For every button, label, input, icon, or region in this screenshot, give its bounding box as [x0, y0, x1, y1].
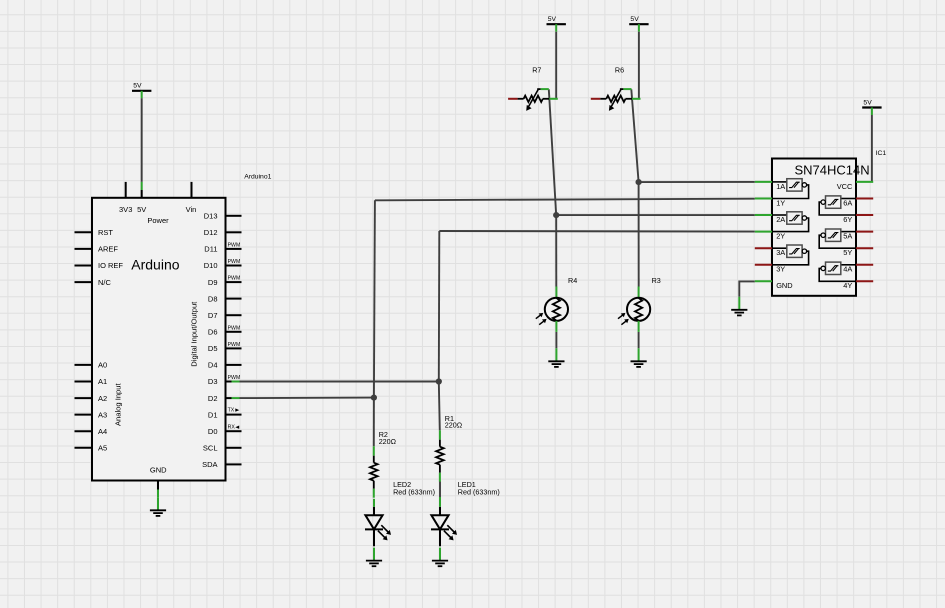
LED2 Red (633nm): [365, 480, 435, 547]
svg-text:5V: 5V: [548, 16, 557, 23]
ground (Arduino GND): [150, 497, 166, 516]
svg-text:SCL: SCL: [203, 444, 218, 453]
svg-text:R7: R7: [532, 65, 541, 74]
wire node B to IC 1A: [639, 181, 755, 183]
svg-text:D4: D4: [208, 361, 218, 370]
svg-text:D9: D9: [208, 278, 218, 287]
svg-text:GND: GND: [150, 466, 167, 475]
wire IC 2Y horizontal: [439, 230, 755, 233]
svg-text:A4: A4: [98, 427, 107, 436]
svg-text:3Y: 3Y: [776, 265, 785, 274]
svg-text:Power: Power: [147, 216, 169, 225]
svg-text:GND: GND: [776, 281, 792, 290]
svg-text:220Ω: 220Ω: [379, 437, 397, 446]
svg-text:Red (633nm): Red (633nm): [458, 487, 500, 496]
svg-text:PWM: PWM: [228, 259, 241, 265]
svg-text:Digital Input/Output: Digital Input/Output: [190, 301, 199, 367]
svg-text:D8: D8: [208, 294, 218, 303]
wire IC GND to ground: [739, 281, 755, 296]
hex inverter IC1 SN74HC14N: [755, 150, 887, 296]
microcontroller Arduino1 (Arduino Uno): [75, 174, 272, 498]
svg-text:5V: 5V: [137, 205, 146, 214]
wire node B to R3: [638, 182, 640, 286]
svg-text:4A: 4A: [843, 265, 852, 274]
ground (R4): [548, 348, 564, 367]
wire node D to R1: [439, 382, 440, 431]
svg-text:D0: D0: [208, 427, 218, 436]
ground (R3): [631, 348, 647, 367]
svg-text:VCC: VCC: [837, 182, 853, 191]
svg-text:R6: R6: [615, 65, 624, 74]
svg-text:PWM: PWM: [228, 342, 241, 348]
resistor R1 220Ω: [436, 414, 463, 482]
svg-text:1A: 1A: [776, 182, 785, 191]
wire R4 to ground: [555, 332, 557, 348]
wire 5V to R6 terminal: [638, 32, 640, 99]
svg-text:Arduino1: Arduino1: [244, 174, 271, 181]
trimmer potentiometer R7: [508, 65, 558, 111]
svg-text:D12: D12: [204, 228, 218, 237]
svg-text:Vin: Vin: [186, 205, 197, 214]
svg-text:PWM: PWM: [228, 325, 241, 331]
svg-text:D1: D1: [208, 410, 218, 419]
svg-text:D3: D3: [208, 377, 218, 386]
svg-text:4Y: 4Y: [843, 281, 852, 290]
svg-text:1Y: 1Y: [776, 198, 785, 207]
power symbol 5V (R7 supply): [547, 16, 566, 32]
wire 1Y vertical to node C: [374, 200, 375, 397]
svg-text:5V: 5V: [863, 99, 872, 106]
node C junction (D2/1Y/R2): [371, 395, 377, 401]
svg-text:D2: D2: [208, 394, 218, 403]
wire 5V to R7 terminal: [555, 32, 557, 99]
wire node A to R4: [555, 215, 557, 286]
svg-text:Analog Input: Analog Input: [114, 382, 123, 426]
wire IC 1Y horizontal: [375, 199, 755, 201]
wire 5V to Arduino 5V pin: [141, 98, 143, 182]
node B junction (R6/R3/1A): [636, 179, 642, 185]
wire R1 to LED1: [439, 482, 441, 498]
svg-text:RX: RX: [228, 425, 236, 431]
wire node A to IC 2A: [556, 214, 755, 216]
power symbol 5V (Arduino supply): [132, 83, 151, 99]
svg-text:A1: A1: [98, 377, 107, 386]
svg-text:3V3: 3V3: [119, 205, 132, 214]
svg-text:6A: 6A: [843, 198, 852, 207]
svg-text:IO REF: IO REF: [98, 261, 123, 270]
resistor R2 220Ω: [370, 430, 397, 498]
wire Arduino D3 to node D: [240, 381, 439, 383]
ground (LED1): [432, 548, 448, 567]
LED1 Red (633nm): [431, 480, 500, 547]
ground (LED2): [366, 548, 382, 567]
svg-text:PWM: PWM: [228, 276, 241, 282]
svg-text:5V: 5V: [630, 16, 639, 23]
power symbol 5V (IC VCC supply): [862, 99, 881, 115]
trimmer potentiometer R6: [591, 65, 641, 111]
svg-text:2A: 2A: [776, 215, 785, 224]
svg-text:PWM: PWM: [228, 243, 241, 249]
svg-text:D7: D7: [208, 311, 218, 320]
svg-text:A0: A0: [98, 361, 107, 370]
svg-text:A5: A5: [98, 444, 107, 453]
svg-text:5Y: 5Y: [843, 248, 852, 257]
ground (IC GND): [731, 297, 747, 316]
svg-text:IC1: IC1: [876, 150, 887, 157]
svg-text:D5: D5: [208, 344, 218, 353]
svg-text:3A: 3A: [776, 248, 785, 257]
node D junction (D3/2Y/R1): [436, 378, 442, 384]
wire node C to R2: [373, 398, 375, 447]
svg-text:5A: 5A: [843, 232, 852, 241]
photoresistor R4 (LDR): [536, 276, 577, 332]
svg-text:6Y: 6Y: [843, 215, 852, 224]
svg-text:TX: TX: [228, 408, 235, 414]
svg-text:R3: R3: [652, 276, 661, 285]
svg-text:D11: D11: [204, 245, 217, 254]
wire Arduino D2 to node C: [240, 397, 374, 400]
svg-text:SN74HC14N: SN74HC14N: [795, 163, 870, 178]
svg-text:SDA: SDA: [202, 460, 217, 469]
svg-text:D13: D13: [204, 212, 218, 221]
wire 5V to IC VCC: [871, 115, 873, 182]
wire R6 wiper to node B: [631, 89, 638, 182]
photoresistor R3 (LDR): [618, 276, 661, 332]
node A junction (R7/R4/2A): [553, 212, 559, 218]
wire 2Y vertical to node D: [438, 231, 441, 382]
power symbol 5V (R6 supply): [629, 16, 648, 32]
svg-text:5V: 5V: [133, 83, 142, 90]
svg-text:220Ω: 220Ω: [445, 421, 463, 430]
svg-text:RST: RST: [98, 228, 113, 237]
svg-text:A2: A2: [98, 394, 107, 403]
svg-text:AREF: AREF: [98, 245, 118, 254]
svg-text:Arduino: Arduino: [131, 257, 179, 273]
svg-text:D6: D6: [208, 328, 218, 337]
svg-text:R4: R4: [568, 276, 577, 285]
svg-text:PWM: PWM: [228, 375, 241, 381]
svg-text:Red (633nm): Red (633nm): [393, 487, 435, 496]
svg-text:N/C: N/C: [98, 278, 112, 287]
svg-text:2Y: 2Y: [776, 232, 785, 241]
wire R7 wiper to node A: [549, 89, 556, 215]
wire R3 to ground: [638, 332, 640, 348]
svg-text:A3: A3: [98, 410, 107, 419]
svg-text:D10: D10: [204, 261, 218, 270]
